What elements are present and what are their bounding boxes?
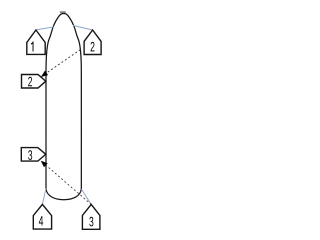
label house 2 (84, 30, 101, 55)
label house 4 (33, 204, 51, 229)
wire dashed D1 (46, 50, 81, 74)
leader line to label 3 house (blue) (81, 189, 91, 204)
arrowhead A1 (41, 71, 48, 77)
label pentagon 3 (21, 148, 46, 162)
leader line to label 1 (blue) (36, 27, 54, 30)
bow cap gray (60, 11, 66, 13)
label pentagon 2 (22, 75, 46, 89)
arrowhead A2 (41, 161, 48, 168)
leader line to label 4 (blue) (42, 189, 46, 205)
hull outline (46, 13, 81, 199)
label house 1 (27, 30, 45, 54)
dashed arrow pointing to pentagon 3 (41, 161, 91, 205)
wire dashed D2 (46, 165, 92, 205)
label house 3 (82, 204, 100, 229)
leader line to label 2 house (blue) (73, 25, 93, 30)
dashed arrow pointing to pentagon 2 (41, 50, 81, 77)
